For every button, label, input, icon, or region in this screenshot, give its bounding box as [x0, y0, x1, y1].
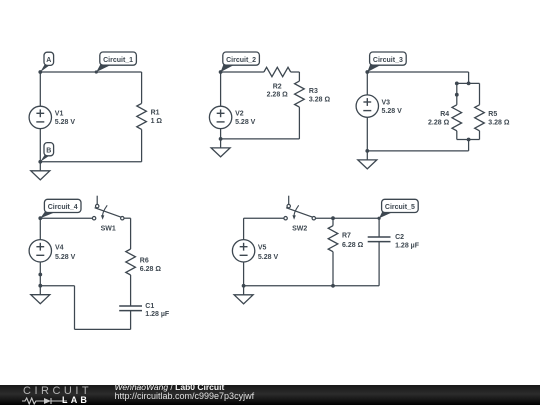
- svg-text:V3: V3: [382, 99, 391, 106]
- svg-text:V5: V5: [258, 245, 267, 252]
- svg-text:A: A: [46, 57, 51, 64]
- svg-text:6.28 Ω: 6.28 Ω: [140, 266, 162, 273]
- svg-text:5.28 V: 5.28 V: [258, 254, 279, 261]
- svg-text:2.28 Ω: 2.28 Ω: [428, 120, 450, 127]
- svg-text:Circuit_5: Circuit_5: [385, 204, 415, 211]
- svg-text:R2: R2: [273, 83, 282, 90]
- svg-text:V1: V1: [55, 110, 64, 117]
- svg-text:5.28 V: 5.28 V: [55, 254, 76, 261]
- svg-text:Circuit_3: Circuit_3: [373, 57, 403, 64]
- svg-text:5.28 V: 5.28 V: [55, 119, 76, 126]
- svg-text:V2: V2: [235, 110, 244, 117]
- svg-text:SW2: SW2: [292, 225, 307, 232]
- svg-text:1.28 µF: 1.28 µF: [145, 311, 170, 318]
- svg-text:R6: R6: [140, 257, 149, 264]
- svg-text:SW1: SW1: [101, 225, 116, 232]
- svg-text:V4: V4: [55, 245, 64, 252]
- svg-text:R5: R5: [488, 111, 497, 118]
- svg-text:5.28 V: 5.28 V: [235, 119, 256, 126]
- svg-text:2.28 Ω: 2.28 Ω: [267, 92, 289, 99]
- svg-text:3.28 Ω: 3.28 Ω: [309, 97, 331, 104]
- svg-text:R3: R3: [309, 88, 318, 95]
- svg-text:R1: R1: [151, 109, 160, 116]
- svg-text:1.28 µF: 1.28 µF: [395, 242, 420, 249]
- svg-text:Circuit_4: Circuit_4: [48, 204, 78, 211]
- svg-text:1 Ω: 1 Ω: [151, 118, 163, 125]
- svg-text:6.28 Ω: 6.28 Ω: [342, 242, 364, 249]
- svg-text:5.28 V: 5.28 V: [382, 108, 403, 115]
- svg-text:Circuit_1: Circuit_1: [103, 57, 133, 64]
- svg-text:R4: R4: [440, 111, 449, 118]
- svg-text:R7: R7: [342, 233, 351, 240]
- svg-text:C1: C1: [145, 303, 154, 310]
- svg-text:B: B: [46, 148, 51, 155]
- svg-text:3.28 Ω: 3.28 Ω: [488, 120, 510, 127]
- svg-text:Circuit_2: Circuit_2: [226, 57, 256, 64]
- svg-text:C2: C2: [395, 234, 404, 241]
